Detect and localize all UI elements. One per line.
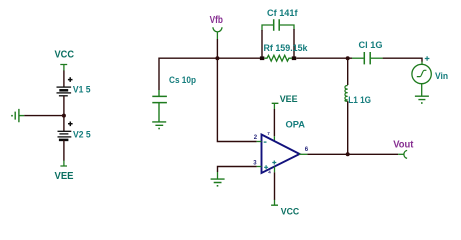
svg-text:VCC: VCC — [55, 50, 75, 61]
svg-text:Cs 10p: Cs 10p — [169, 75, 196, 85]
resistor Rf zigzag — [264, 55, 292, 61]
svg-text:L1 1G: L1 1G — [348, 95, 371, 105]
battery V1 plus sign — [68, 77, 73, 82]
resistor Rf left terminal — [260, 56, 264, 60]
wire Vfb branch down to op-amp pin 2 — [217, 58, 256, 141]
svg-text:Rf 159.15k: Rf 159.15k — [264, 43, 309, 53]
op-amp pin 6 stub — [299, 153, 307, 155]
terminal VCC below op-amp — [271, 200, 278, 205]
port Vout (Y terminal) — [404, 150, 407, 158]
ground below Cs dot — [158, 128, 160, 130]
capacitor Cl left pin — [352, 57, 364, 59]
capacitor Cs pin stub bottom — [158, 103, 160, 122]
ground G1 dot — [11, 115, 13, 117]
op-amp U1 triangle — [262, 135, 300, 174]
capacitor Cl right pin — [371, 57, 383, 59]
op-amp plus mark (supply) — [272, 161, 276, 165]
port Vout pin stub — [398, 153, 403, 155]
battery V2 — [58, 131, 72, 140]
wire top rail (Cs corner to Rf) — [159, 58, 262, 90]
wire Cf right riser — [293, 29, 295, 57]
ground pin stub (pin 3 ground) — [217, 172, 219, 179]
ground G1 (left, rotated) — [15, 109, 19, 122]
ground G1 pin stub — [19, 115, 24, 117]
wire op-amp to VCC terminal — [274, 172, 276, 200]
capacitor Cf — [274, 19, 280, 30]
wire VEE terminal to op-amp — [273, 109, 275, 136]
svg-text:OPA: OPA — [286, 120, 306, 131]
op-amp plus mark (input) — [264, 165, 268, 169]
wire L1 bottom lead to output — [347, 101, 349, 154]
wire battery V2 to VEE terminal — [63, 140, 65, 161]
ground below Vin — [415, 96, 429, 99]
port Vfb pin stub — [216, 32, 218, 39]
wire op-amp pin 3 to ground — [218, 167, 257, 173]
junction node between V1 and V2 — [62, 114, 66, 118]
svg-text:VEE: VEE — [280, 94, 298, 105]
svg-text:Cf 141f: Cf 141f — [267, 8, 299, 18]
op-amp U1 power pin stub top — [273, 136, 275, 141]
svg-text:Cl 1G: Cl 1G — [359, 40, 383, 50]
svg-text:Vout: Vout — [393, 139, 414, 150]
junction L1 top node — [346, 56, 350, 60]
ground below op-amp pin 3 — [211, 179, 225, 182]
capacitor Cl — [364, 52, 370, 64]
op-amp pin 3 stub — [257, 166, 262, 168]
capacitor Cf right pin — [280, 25, 294, 30]
port Vfb (Y terminal) — [213, 27, 222, 32]
resistor Rf right terminal — [292, 56, 296, 60]
svg-text:Vfb: Vfb — [210, 15, 223, 26]
terminal VEE above op-amp — [272, 103, 279, 109]
svg-text:VCC: VCC — [281, 206, 300, 217]
svg-text:Vin: Vin — [435, 71, 448, 81]
capacitor Cf left pin — [262, 25, 273, 31]
wire ground G1 to node — [24, 115, 64, 117]
battery V2 plus sign — [68, 122, 73, 127]
inductor L1 — [345, 86, 348, 102]
junction output node (L1 bottom) — [346, 152, 350, 156]
wire op-amp output to Vout — [307, 153, 398, 155]
wire L1 top lead — [347, 58, 349, 85]
terminal VEE (green T) — [60, 161, 67, 167]
source Vin waveform — [417, 70, 427, 76]
capacitor Cs pin stub top — [158, 90, 160, 96]
wire Vfb to top rail — [216, 39, 218, 58]
source Vin pin stub top — [421, 62, 423, 65]
ground below Vin dot — [421, 102, 423, 104]
svg-text:VEE: VEE — [55, 171, 74, 182]
wire Cf left riser — [261, 30, 263, 57]
battery V1 — [57, 87, 72, 96]
source Vin pin stub bottom — [421, 84, 423, 97]
svg-text:V1 5: V1 5 — [73, 85, 91, 95]
op-amp U1 power pin stub bottom — [274, 166, 276, 172]
Vin plus sign — [425, 56, 430, 61]
junction Vfb node on rail — [215, 56, 219, 60]
op-amp minus mark — [264, 141, 267, 143]
wire VCC tick to battery V1 — [63, 71, 65, 88]
terminal VCC (green T) — [60, 65, 67, 72]
op-amp pin 2 stub — [257, 141, 262, 143]
ground below Cs — [152, 122, 166, 125]
capacitor Cs — [152, 96, 167, 102]
source Vin circle — [412, 64, 431, 83]
svg-text:V2 5: V2 5 — [73, 129, 91, 139]
ground below op-amp pin 3 dot — [217, 185, 219, 187]
wire battery V1 to node — [63, 96, 65, 132]
wire rail Rf to L1 junction — [296, 57, 352, 59]
wire Cl to Vin corner — [383, 58, 422, 62]
